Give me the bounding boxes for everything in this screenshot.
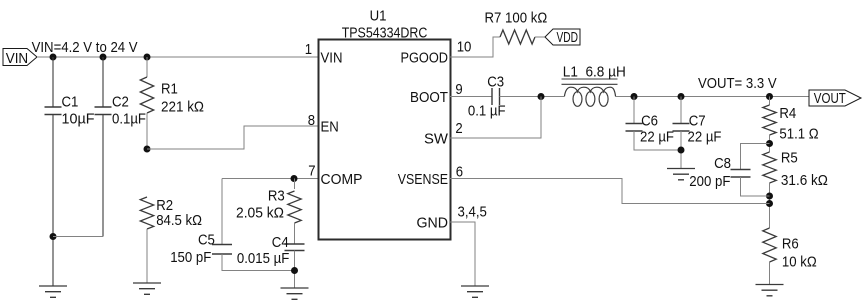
svg-text:84.5 kΩ: 84.5 kΩ bbox=[156, 212, 202, 229]
svg-text:SW: SW bbox=[424, 131, 449, 148]
svg-text:C4: C4 bbox=[272, 234, 289, 251]
svg-text:R6: R6 bbox=[782, 236, 799, 253]
svg-text:C1: C1 bbox=[62, 94, 79, 111]
node junction C1/VIN bbox=[50, 54, 57, 61]
svg-text:22 µF: 22 µF bbox=[640, 129, 674, 146]
wire EN net bbox=[147, 126, 318, 149]
wire R3 top lead bbox=[294, 179, 296, 190]
node junction C6 bbox=[631, 93, 638, 100]
capacitor C8 bbox=[731, 170, 751, 178]
node junction VSENSE/R6 bbox=[766, 200, 773, 207]
svg-text:51.1 Ω: 51.1 Ω bbox=[779, 126, 818, 143]
wire C2 bottom lead to C1 node bbox=[102, 115, 104, 237]
node junction C7 bbox=[678, 93, 685, 100]
wire R4 top lead bbox=[769, 97, 771, 106]
svg-text:C2: C2 bbox=[112, 94, 129, 111]
svg-text:0.015 µF: 0.015 µF bbox=[237, 250, 289, 267]
node junction C1/C2 return bbox=[50, 233, 57, 240]
svg-text:GND: GND bbox=[417, 215, 449, 232]
svg-text:VOUT: VOUT bbox=[814, 90, 846, 107]
wire C8 branch bottom bbox=[741, 177, 770, 196]
node junction R4/VOUT bbox=[766, 93, 773, 100]
wire VSENSE net bbox=[450, 179, 770, 204]
net tag VIN bbox=[3, 49, 37, 66]
node junction C6/C7 return bbox=[678, 147, 685, 154]
resistor R6 bbox=[763, 228, 776, 262]
wire C6 top lead bbox=[633, 97, 635, 124]
svg-text:C8: C8 bbox=[714, 155, 731, 172]
svg-text:22 µF: 22 µF bbox=[688, 129, 722, 146]
inductor L1 bbox=[562, 79, 618, 106]
wire VIN rail to pin 1 bbox=[37, 56, 318, 58]
capacitor C7 bbox=[673, 124, 690, 132]
wire R2 bottom lead bbox=[146, 229, 148, 283]
svg-text:2: 2 bbox=[455, 120, 462, 137]
svg-text:VSENSE: VSENSE bbox=[398, 171, 448, 188]
svg-text:BOOT: BOOT bbox=[410, 89, 448, 106]
resistor R2 bbox=[140, 197, 153, 229]
resistor R7 bbox=[500, 30, 535, 44]
node junction R4/R5/C8 bbox=[766, 140, 773, 147]
node junction COMP/R3 bbox=[291, 175, 298, 182]
resistor R4 bbox=[763, 105, 776, 135]
ground G1 bbox=[39, 286, 67, 297]
capacitor C5 bbox=[212, 245, 232, 255]
svg-text:R3: R3 bbox=[268, 188, 285, 205]
svg-text:R1: R1 bbox=[161, 81, 178, 98]
wire C1 bottom lead bbox=[52, 115, 54, 287]
ground G2 bbox=[133, 283, 161, 294]
ground G6 bbox=[756, 285, 784, 296]
svg-text:8: 8 bbox=[308, 112, 315, 129]
op-amp U1 TPS54334DRC body bbox=[319, 40, 451, 240]
svg-text:COMP: COMP bbox=[321, 171, 363, 188]
svg-text:7: 7 bbox=[308, 163, 315, 180]
wire BOOT stub bbox=[450, 96, 492, 98]
wire C6 bottom lead bbox=[634, 131, 681, 150]
resistor R1 bbox=[140, 77, 153, 113]
svg-text:L1 6.8 µH: L1 6.8 µH bbox=[563, 63, 626, 80]
wire C2 top lead bbox=[102, 57, 104, 107]
svg-text:10 kΩ: 10 kΩ bbox=[782, 254, 817, 271]
node junction BOOT/SW bbox=[538, 93, 545, 100]
capacitor C1 bbox=[45, 107, 62, 115]
svg-text:U1: U1 bbox=[370, 8, 387, 25]
svg-text:31.6 kΩ: 31.6 kΩ bbox=[781, 172, 828, 189]
svg-text:C5: C5 bbox=[198, 232, 215, 249]
node junction C4/C5 return bbox=[291, 267, 298, 274]
svg-text:200 pF: 200 pF bbox=[689, 173, 730, 190]
capacitor C2 bbox=[95, 107, 112, 115]
resistor R3 bbox=[288, 191, 301, 223]
wire SW stub bbox=[450, 97, 541, 139]
node junction C8 return bbox=[766, 193, 773, 200]
svg-text:0.1 µF: 0.1 µF bbox=[468, 103, 506, 120]
wire C8 branch top bbox=[741, 144, 770, 170]
wire PGOOD to R7 bbox=[450, 37, 500, 57]
wire C7 bottom lead bbox=[680, 131, 682, 169]
svg-text:1: 1 bbox=[305, 41, 312, 58]
wire C1 top lead bbox=[52, 57, 54, 107]
svg-text:EN: EN bbox=[321, 119, 339, 136]
capacitor C4 bbox=[285, 244, 305, 251]
svg-text:6: 6 bbox=[456, 164, 463, 181]
node junction R1/R2/EN bbox=[144, 146, 151, 153]
svg-text:R7 100 kΩ: R7 100 kΩ bbox=[485, 10, 548, 27]
wire C7 top lead bbox=[680, 97, 682, 124]
capacitor C6 bbox=[626, 124, 643, 132]
svg-text:2.05 kΩ: 2.05 kΩ bbox=[236, 205, 284, 222]
resistor R5 bbox=[763, 152, 776, 183]
wire GND pins 3,4,5 bbox=[450, 222, 475, 286]
svg-text:C6: C6 bbox=[641, 113, 658, 130]
svg-text:C7: C7 bbox=[689, 113, 706, 130]
svg-text:VIN=4.2 V to 24 V: VIN=4.2 V to 24 V bbox=[32, 39, 138, 56]
wire COMP net bbox=[222, 178, 318, 180]
svg-text:VOUT= 3.3 V: VOUT= 3.3 V bbox=[698, 75, 777, 92]
svg-text:9: 9 bbox=[455, 81, 462, 98]
svg-text:0.1µF: 0.1µF bbox=[112, 111, 146, 128]
svg-text:3,4,5: 3,4,5 bbox=[458, 204, 487, 221]
ground G4 bbox=[461, 286, 489, 297]
wire C5 top lead bbox=[221, 179, 223, 246]
wire L1 to VOUT tag bbox=[616, 96, 809, 98]
wire R4 to R5 bbox=[769, 135, 771, 152]
wire R7 to VDD tag bbox=[535, 36, 545, 38]
node junction C2/VIN bbox=[100, 54, 107, 61]
svg-text:10: 10 bbox=[457, 39, 472, 56]
svg-text:TPS54334DRC: TPS54334DRC bbox=[342, 24, 428, 41]
wire R6 bottom lead bbox=[769, 262, 771, 285]
svg-text:R4: R4 bbox=[779, 105, 796, 122]
svg-text:221 kΩ: 221 kΩ bbox=[161, 99, 204, 116]
wire R1 top lead bbox=[146, 57, 148, 77]
svg-text:10µF: 10µF bbox=[62, 111, 95, 128]
net tag VDD bbox=[545, 29, 580, 45]
wire R3 to C4 bbox=[294, 223, 296, 244]
svg-text:150 pF: 150 pF bbox=[170, 249, 211, 266]
svg-text:PGOOD: PGOOD bbox=[401, 50, 449, 67]
node junction R1/VIN bbox=[144, 54, 151, 61]
wire R5 bottom lead bbox=[769, 183, 771, 228]
wire C3 to SW node bbox=[500, 96, 565, 98]
svg-text:C3: C3 bbox=[487, 74, 504, 91]
ground G3 bbox=[281, 288, 309, 299]
wire C5 bottom lead bbox=[222, 254, 295, 271]
svg-text:VIN: VIN bbox=[321, 50, 343, 67]
ground G5 bbox=[667, 169, 695, 180]
svg-text:VIN: VIN bbox=[6, 50, 29, 67]
capacitor C3 bbox=[492, 88, 500, 105]
net tag VOUT bbox=[809, 90, 861, 106]
wire C4 bottom lead bbox=[294, 251, 296, 289]
wire R1 bottom lead bbox=[146, 113, 148, 149]
svg-text:VDD: VDD bbox=[557, 29, 579, 46]
svg-text:R5: R5 bbox=[781, 150, 798, 167]
